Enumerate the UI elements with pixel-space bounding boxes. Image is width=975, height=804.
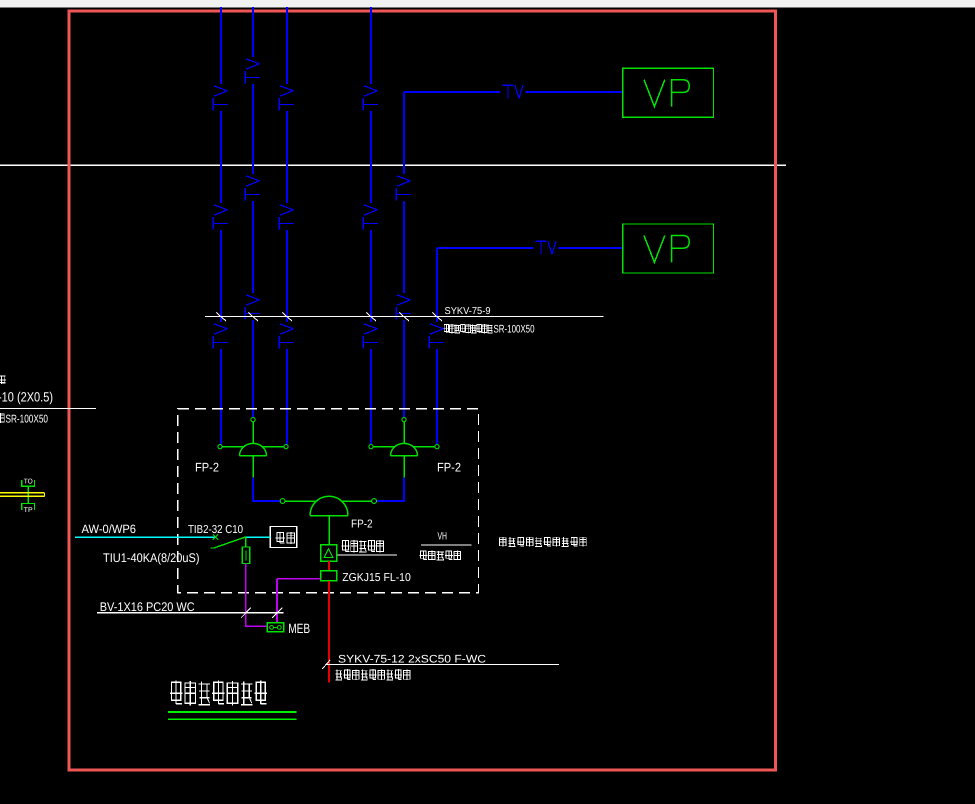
- svg-text:SYKV-75-12 2xSC50 F-WC: SYKV-75-12 2xSC50 F-WC: [338, 654, 486, 666]
- svg-text:FP-2: FP-2: [195, 461, 219, 475]
- svg-text:SR-100X50: SR-100X50: [494, 324, 535, 336]
- svg-text:TIB2-32 C10: TIB2-32 C10: [188, 524, 243, 536]
- svg-text:-10 (2X0.5): -10 (2X0.5): [0, 390, 53, 405]
- svg-text:ZGKJ15 FL-10: ZGKJ15 FL-10: [342, 572, 411, 584]
- svg-text:VH: VH: [438, 531, 448, 543]
- svg-text:TO: TO: [24, 478, 34, 485]
- svg-text:TP: TP: [24, 507, 33, 514]
- svg-text:TIU1-40KA(8/20uS): TIU1-40KA(8/20uS): [103, 551, 200, 565]
- svg-text:FP-2: FP-2: [437, 461, 461, 475]
- svg-text:BV-1X16 PC20 WC: BV-1X16 PC20 WC: [100, 600, 195, 614]
- svg-text:FP-2: FP-2: [351, 518, 373, 530]
- svg-text:SYKV-75-9: SYKV-75-9: [445, 306, 491, 317]
- svg-text:MEB: MEB: [288, 621, 310, 636]
- svg-text:SR-100X50: SR-100X50: [6, 414, 49, 426]
- svg-text:AW-0/WP6: AW-0/WP6: [82, 522, 137, 536]
